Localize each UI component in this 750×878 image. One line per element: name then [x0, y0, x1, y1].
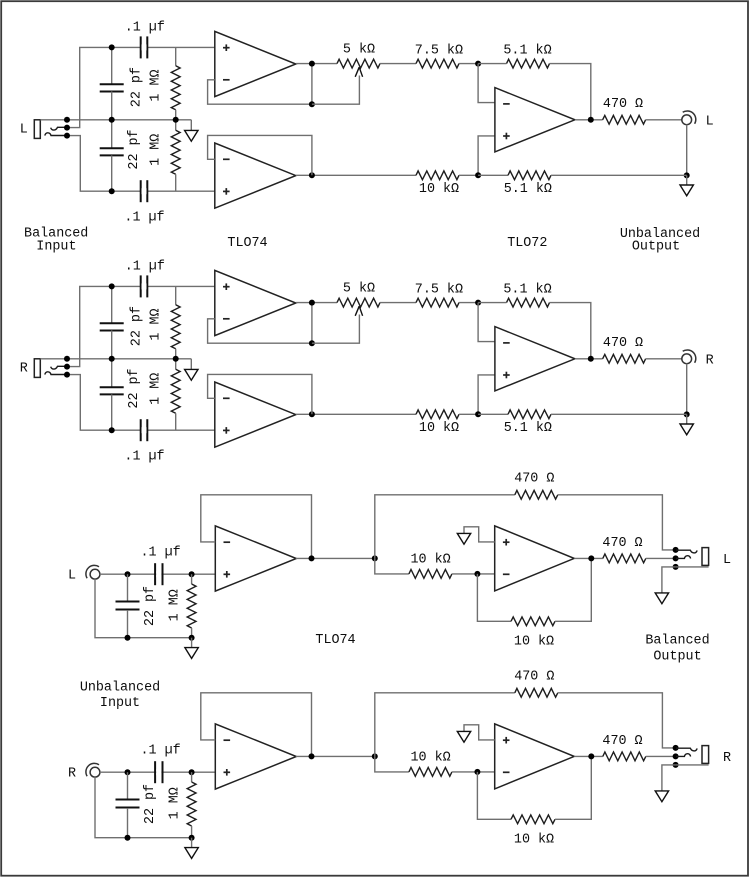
svg-text:TLO74: TLO74: [315, 633, 355, 648]
svg-text:Balanced: Balanced: [645, 633, 709, 648]
svg-text:10 kΩ: 10 kΩ: [411, 553, 451, 568]
svg-text:Unbalanced: Unbalanced: [80, 680, 160, 695]
svg-text:22 pf: 22 pf: [130, 306, 145, 346]
svg-text:5.1 kΩ: 5.1 kΩ: [504, 421, 552, 436]
svg-text:470 Ω: 470 Ω: [602, 536, 642, 551]
svg-text:Input: Input: [36, 239, 76, 254]
svg-text:7.5 kΩ: 7.5 kΩ: [415, 282, 463, 297]
svg-text:1 MΩ: 1 MΩ: [148, 134, 163, 166]
svg-text:10 kΩ: 10 kΩ: [411, 751, 451, 766]
svg-text:1 MΩ: 1 MΩ: [148, 69, 163, 101]
svg-text:1 MΩ: 1 MΩ: [148, 308, 163, 340]
svg-text:10 kΩ: 10 kΩ: [514, 833, 554, 848]
svg-text:22 pf: 22 pf: [130, 67, 145, 107]
svg-text:470 Ω: 470 Ω: [603, 97, 643, 112]
svg-text:.1 µf: .1 µf: [125, 21, 165, 36]
svg-text:470 Ω: 470 Ω: [602, 734, 642, 749]
svg-text:7.5 kΩ: 7.5 kΩ: [415, 43, 463, 58]
svg-text:Output: Output: [653, 649, 701, 664]
svg-text:.1 µf: .1 µf: [124, 211, 164, 226]
svg-text:.1 µf: .1 µf: [141, 744, 181, 759]
svg-text:5 kΩ: 5 kΩ: [343, 282, 375, 297]
svg-text:22 pf: 22 pf: [143, 784, 158, 824]
svg-text:5 kΩ: 5 kΩ: [343, 43, 375, 58]
svg-text:R: R: [723, 751, 731, 766]
svg-text:22 pf: 22 pf: [143, 586, 158, 626]
svg-text:L: L: [723, 553, 731, 568]
svg-text:R: R: [68, 767, 76, 782]
svg-text:22 pf: 22 pf: [127, 129, 142, 169]
svg-text:TLO74: TLO74: [227, 236, 267, 251]
svg-text:470 Ω: 470 Ω: [603, 336, 643, 351]
svg-text:10 kΩ: 10 kΩ: [514, 635, 554, 650]
svg-text:R: R: [20, 361, 28, 376]
svg-text:.1 µf: .1 µf: [124, 450, 164, 465]
svg-text:R: R: [706, 353, 714, 368]
svg-text:5.1 kΩ: 5.1 kΩ: [503, 43, 551, 58]
svg-text:L: L: [706, 114, 714, 129]
svg-text:10 kΩ: 10 kΩ: [419, 182, 459, 197]
svg-text:L: L: [68, 569, 76, 584]
svg-text:1 MΩ: 1 MΩ: [167, 787, 182, 819]
svg-text:470 Ω: 470 Ω: [514, 471, 554, 486]
svg-text:5.1 kΩ: 5.1 kΩ: [504, 182, 552, 197]
svg-text:TLO72: TLO72: [507, 236, 547, 251]
svg-text:470 Ω: 470 Ω: [514, 669, 554, 684]
svg-text:Input: Input: [100, 696, 140, 711]
svg-text:10 kΩ: 10 kΩ: [419, 421, 459, 436]
svg-text:.1 µf: .1 µf: [125, 260, 165, 275]
svg-text:5.1 kΩ: 5.1 kΩ: [503, 282, 551, 297]
svg-text:L: L: [20, 122, 28, 137]
svg-text:Output: Output: [632, 240, 680, 255]
svg-text:22 pf: 22 pf: [127, 368, 142, 408]
svg-text:1 MΩ: 1 MΩ: [148, 373, 163, 405]
svg-text:.1 µf: .1 µf: [141, 546, 181, 561]
svg-text:1 MΩ: 1 MΩ: [167, 589, 182, 621]
